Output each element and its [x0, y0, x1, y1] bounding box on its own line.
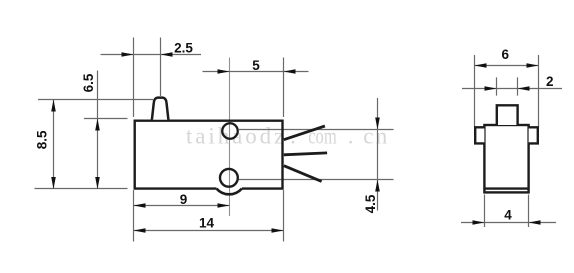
extension line: left tab outer edge up (for 6 dim) [474, 55, 476, 127]
arrow right (2.5) [161, 52, 173, 57]
svg-text:6: 6 [502, 47, 510, 62]
svg-text:.: . [348, 123, 354, 148]
extension line: body right edge down (for 4 dim) [528, 195, 530, 228]
dimension line 4.5 [377, 98, 379, 211]
arrow down to hole1 line (4.5) [375, 118, 380, 130]
extension line: hole centreline vertical (for 5 and 9 dims) [229, 58, 231, 217]
push button (end view) [497, 105, 518, 125]
arrow up to hole2 line (4.5) [375, 180, 380, 192]
terminal 1 (upper) [284, 126, 325, 140]
svg-text:8.5: 8.5 [34, 130, 49, 149]
extension line: body left edge down (for 4 dim) [484, 195, 486, 228]
base strip line [484, 187, 528, 189]
svg-text:4.5: 4.5 [363, 194, 378, 213]
mounting hole top [222, 123, 238, 139]
dimension line 2.5 [101, 54, 202, 56]
svg-text:9: 9 [180, 192, 188, 207]
extension line: body right edge down (for 14 dim) [283, 190, 285, 242]
extension line: body left edge down (for 9 / 14 dims) [133, 190, 135, 242]
extension line: button centre up (for 2.5 dim) [160, 38, 162, 97]
arrow right (5) [284, 69, 296, 74]
bottom notch arc [217, 189, 242, 195]
arrow up (6.5) [95, 119, 100, 131]
extension tick: button right edge (for 2 dim) [517, 77, 519, 95]
arrow left (6) [475, 63, 487, 68]
extension line: body left edge up (for 2.5 dim) [133, 38, 135, 118]
switch body outline (side view) with bottom notch gap [135, 121, 283, 189]
svg-text:cn: cn [363, 123, 389, 148]
extension line: hole 2 centre right (for 4.5 dim) [239, 179, 394, 181]
svg-text:5: 5 [252, 58, 260, 73]
extension line: button top level left (for 8.5 dim) [38, 99, 153, 101]
arrow left (4) [473, 220, 485, 225]
extension line: body top level left (for 6.5 dim) [84, 118, 128, 120]
svg-text:6.5: 6.5 [81, 73, 96, 92]
arrow down (8.5) [51, 177, 56, 189]
dimension line 6 [475, 65, 539, 67]
dimension line 6.5 [97, 71, 99, 190]
arrow left (2) [485, 86, 497, 91]
dimension line 4 [461, 222, 556, 224]
arrow right (6) [527, 63, 539, 68]
svg-text:14: 14 [199, 215, 215, 230]
push button (plunger) on top [152, 98, 169, 120]
extension line: body right edge up (for 5 dim) [283, 58, 285, 118]
svg-text:2.5: 2.5 [174, 41, 193, 56]
arrow left (2.5) [122, 52, 134, 57]
arrow left (5) [218, 69, 230, 74]
svg-text:4: 4 [504, 208, 512, 223]
mounting hole bottom [220, 169, 238, 187]
right terminal tab [529, 127, 538, 143]
dimension line 2 [462, 88, 562, 90]
dimension line 9 [134, 205, 230, 207]
extension line: right tab outer edge up (for 6 dim) [538, 55, 540, 127]
dimension line 8.5 [53, 100, 55, 190]
svg-text:2: 2 [546, 74, 554, 89]
arrow right (4) [529, 220, 541, 225]
arrow up (8.5) [51, 100, 56, 112]
arrow left (14) [134, 228, 146, 233]
extension line: hole 1 centre right (for 4.5 dim) [239, 129, 394, 131]
terminal 2 (middle) [284, 153, 327, 155]
arrow left (9) [134, 203, 146, 208]
dimension line 5 [203, 71, 309, 73]
arrow right (14) [272, 228, 284, 233]
extension line: body bottom level left (for 8.5 / 6.5 dims) [35, 188, 128, 190]
terminal 3 (lower) [284, 166, 322, 182]
arrow right (2) [518, 86, 530, 91]
extension tick: button left edge (for 2 dim) [496, 77, 498, 95]
left terminal tab [475, 127, 484, 143]
dimension line 14 [134, 230, 284, 232]
arrow down (6.5) [95, 177, 100, 189]
body outline (end view) [484, 125, 528, 192]
arrow right (9) [218, 203, 230, 208]
